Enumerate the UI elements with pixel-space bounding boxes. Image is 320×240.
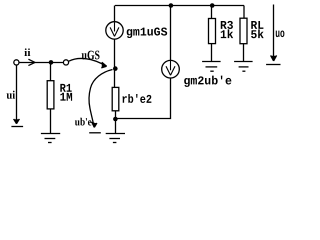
wire bottom from node e to gm2 — [116, 78, 171, 119]
voltage arrow uGS curved — [69, 58, 107, 67]
ground under rb'e2 — [106, 119, 125, 143]
current source G1 gm1uGS — [106, 22, 123, 39]
wire input down stem — [16, 65, 18, 120]
label RL — [250, 19, 264, 33]
svg-text:rb'e2: rb'e2 — [121, 93, 152, 107]
gate terminal circle — [63, 60, 68, 65]
resistor R1 — [47, 81, 54, 109]
wire gm2 top stem — [170, 6, 172, 61]
label R3 — [220, 19, 234, 33]
wire R3 bottom stem — [211, 44, 213, 62]
svg-text:uGS: uGS — [81, 47, 100, 62]
wire R1 top stem — [50, 63, 52, 81]
wire R3 top stem — [211, 6, 213, 19]
ground under R1 — [41, 134, 60, 143]
wire input horizontal — [19, 62, 63, 64]
resistor rb'e2 — [112, 87, 119, 110]
voltage arrow uo — [271, 5, 277, 62]
resistor R3 — [209, 19, 216, 44]
svg-text:ub'e: ub'e — [75, 116, 92, 128]
wire R1 bottom stem — [50, 109, 52, 134]
wire gm1 top stem — [114, 6, 116, 22]
label 1k — [220, 28, 234, 42]
node input junction dot — [49, 60, 54, 65]
node b' junction dot — [113, 66, 118, 71]
ground under R3 — [202, 62, 221, 72]
label 5k — [250, 28, 264, 42]
current source G2 gm2ub'e — [162, 60, 180, 78]
svg-text:gm2ub'e: gm2ub'e — [183, 74, 232, 88]
ground under RL — [234, 62, 253, 72]
svg-text:1k: 1k — [220, 28, 234, 42]
current arrow ii on wire — [28, 59, 35, 65]
svg-text:5k: 5k — [250, 28, 264, 42]
label rb'e2 — [121, 93, 152, 107]
svg-text:ii: ii — [24, 47, 30, 59]
label R1 — [60, 82, 73, 96]
input terminal circle — [14, 60, 19, 65]
label gm2ub'e — [183, 74, 232, 88]
label ii — [24, 47, 30, 59]
junction dot gm2 at top rail — [169, 3, 174, 8]
wire rb'e2 bottom stem — [115, 111, 117, 119]
svg-text:ui: ui — [6, 90, 16, 102]
voltage arrow ub'e curved — [89, 70, 113, 128]
wire top rail — [115, 5, 244, 7]
voltage arrow ui head — [14, 119, 20, 124]
wire RL top stem (rail corner) — [243, 6, 245, 19]
label 1M — [60, 91, 73, 105]
ground bar under ui — [11, 126, 23, 128]
svg-text:uo: uo — [275, 27, 285, 41]
node e junction dot — [113, 117, 118, 122]
wire RL bottom stem — [243, 44, 245, 62]
svg-text:gm1uGS: gm1uGS — [126, 26, 168, 40]
label gm1uGS — [126, 26, 168, 40]
label ui — [6, 90, 16, 102]
wire gm1 bottom stem to node b' — [114, 39, 116, 87]
ground bar under ub'e — [89, 132, 101, 134]
ground bar under uo — [266, 64, 280, 66]
label uo — [275, 27, 285, 41]
junction dot R3 at top rail — [210, 3, 215, 8]
resistor RL — [240, 18, 247, 44]
svg-text:1M: 1M — [60, 91, 73, 105]
label uGS — [81, 47, 100, 62]
label ub'e — [75, 116, 92, 128]
